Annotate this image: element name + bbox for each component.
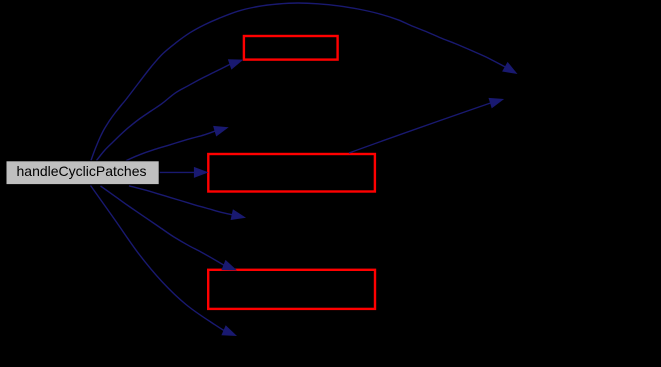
arrowhead: middle hidden node bbox=[213, 126, 229, 137]
edge: handleCyclicPatches -> middle hidden node bbox=[126, 131, 215, 161]
edge: handleCyclicPatches -> top-right hidden node (long arc) bbox=[91, 3, 505, 161]
edge: handleCyclicPatches -> red box 2 (horizontal) bbox=[160, 171, 195, 173]
arrowhead: lower hidden node bbox=[231, 209, 246, 220]
node: red box 1 (truncated callee, label hidden on black) bbox=[244, 36, 338, 60]
edge: handleCyclicPatches -> red box 1 bbox=[97, 64, 231, 160]
arrowhead: red box 2 edge into hidden node bbox=[489, 98, 505, 109]
edge: handleCyclicPatches -> red box 3 bbox=[101, 186, 224, 265]
node: handleCyclicPatches (current function, grey fill) bbox=[6, 161, 159, 185]
arrowhead: into red box 2 left edge bbox=[194, 167, 209, 178]
node: red box 3 (truncated callee, two-line label hidden) bbox=[208, 270, 375, 309]
arrowhead: bottom hidden node bbox=[221, 325, 237, 336]
edge: handleCyclicPatches -> lower hidden node bbox=[129, 186, 232, 215]
svg-text:handleCyclicPatches: handleCyclicPatches bbox=[17, 163, 147, 179]
edge: handleCyclicPatches -> bottom hidden node (long downward curve) bbox=[91, 186, 224, 331]
edge: red box 2 -> upper-right hidden node bbox=[349, 103, 491, 153]
arrowhead: into red box 1 bottom-left corner bbox=[228, 59, 244, 69]
arrowhead: into red box 3 top edge bbox=[221, 260, 237, 271]
node: red box 2 (truncated callee, two-line label hidden) bbox=[208, 154, 375, 192]
arrowhead: long arc into top-right hidden node bbox=[502, 62, 517, 74]
